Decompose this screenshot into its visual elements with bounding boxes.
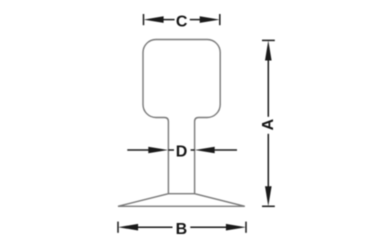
svg-text:A: A [260, 118, 277, 130]
svg-text:D: D [176, 144, 188, 161]
svg-text:B: B [176, 221, 188, 238]
svg-text:C: C [176, 13, 188, 30]
